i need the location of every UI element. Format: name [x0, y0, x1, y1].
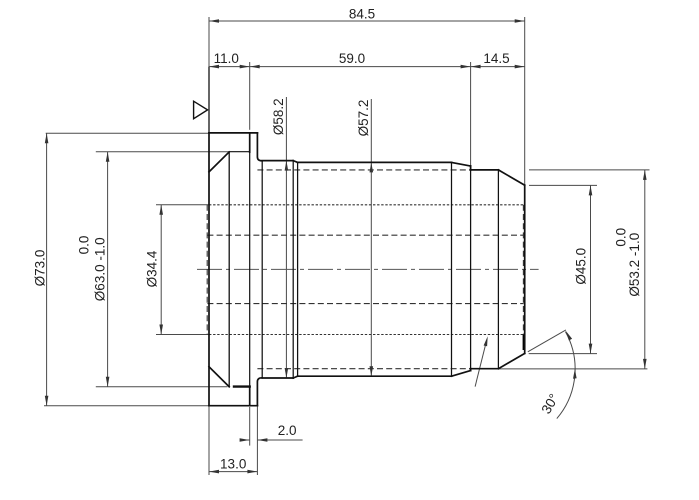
svg-text:2.0: 2.0 — [278, 423, 297, 438]
svg-text:Ø57.2: Ø57.2 — [356, 100, 371, 137]
svg-text:Ø63.0 -1.0: Ø63.0 -1.0 — [93, 237, 108, 301]
svg-text:0.0: 0.0 — [77, 236, 92, 255]
svg-text:Ø58.2: Ø58.2 — [271, 98, 286, 135]
svg-text:13.0: 13.0 — [220, 457, 246, 472]
svg-text:Ø73.0: Ø73.0 — [33, 250, 48, 287]
svg-text:84.5: 84.5 — [349, 7, 375, 22]
svg-text:Ø45.0: Ø45.0 — [573, 248, 588, 285]
svg-text:Ø53.2 -1.0: Ø53.2 -1.0 — [627, 233, 642, 297]
svg-text:14.5: 14.5 — [483, 51, 509, 66]
svg-text:59.0: 59.0 — [339, 51, 365, 66]
svg-text:Ø34.4: Ø34.4 — [145, 250, 160, 287]
svg-text:11.0: 11.0 — [214, 51, 239, 66]
